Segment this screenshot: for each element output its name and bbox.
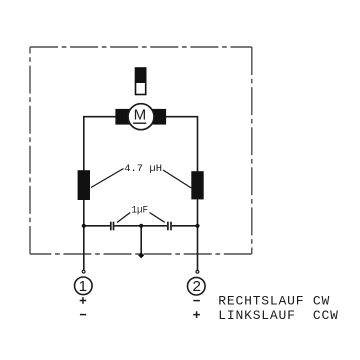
brush right [150, 109, 166, 125]
inductor L1 [78, 170, 90, 200]
terminal 1 circle [75, 277, 93, 295]
thermal protector [135, 67, 147, 94]
terminal 2 minus [193, 300, 200, 302]
brush left [115, 109, 132, 125]
junction node center [139, 224, 143, 228]
wire L2 down [197, 199, 199, 270]
wire motor right to L2 [165, 117, 198, 172]
terminal 2 circle [188, 277, 206, 295]
wire center to chassis [140, 226, 142, 253]
terminal 1 minus [80, 314, 86, 316]
terminal 1 plus [80, 297, 87, 304]
svg-text:1: 1 [79, 278, 87, 295]
svg-text:RECHTSLAUF CW: RECHTSLAUF CW [218, 293, 330, 308]
leader to L2 [163, 170, 191, 188]
enclosure dash-dot border [30, 47, 252, 254]
terminal pin 1 [82, 270, 85, 273]
capacitor bus wire [84, 225, 198, 227]
wire L1 down [83, 200, 85, 270]
svg-text:4.7 µH: 4.7 µH [124, 163, 162, 175]
junction node left [82, 224, 86, 228]
leader to C2 [150, 213, 165, 223]
svg-text:1µF: 1µF [132, 204, 149, 216]
motor underline [133, 122, 146, 124]
svg-text:2: 2 [192, 278, 200, 295]
terminal 2 plus [193, 311, 200, 318]
inductor L2 [191, 171, 203, 199]
leader to L1 [91, 169, 124, 188]
chassis connection diamond [138, 252, 144, 258]
svg-text:LINKSLAUF CCW: LINKSLAUF CCW [218, 308, 338, 323]
junction node right [195, 224, 199, 228]
wire motor left to L1 [84, 117, 116, 171]
motor M [128, 104, 154, 130]
svg-text:M: M [134, 106, 147, 123]
capacitor C2 [168, 222, 171, 231]
terminal pin 2 [196, 270, 199, 273]
leader to C1 [117, 213, 130, 223]
capacitor C1 [111, 222, 114, 231]
